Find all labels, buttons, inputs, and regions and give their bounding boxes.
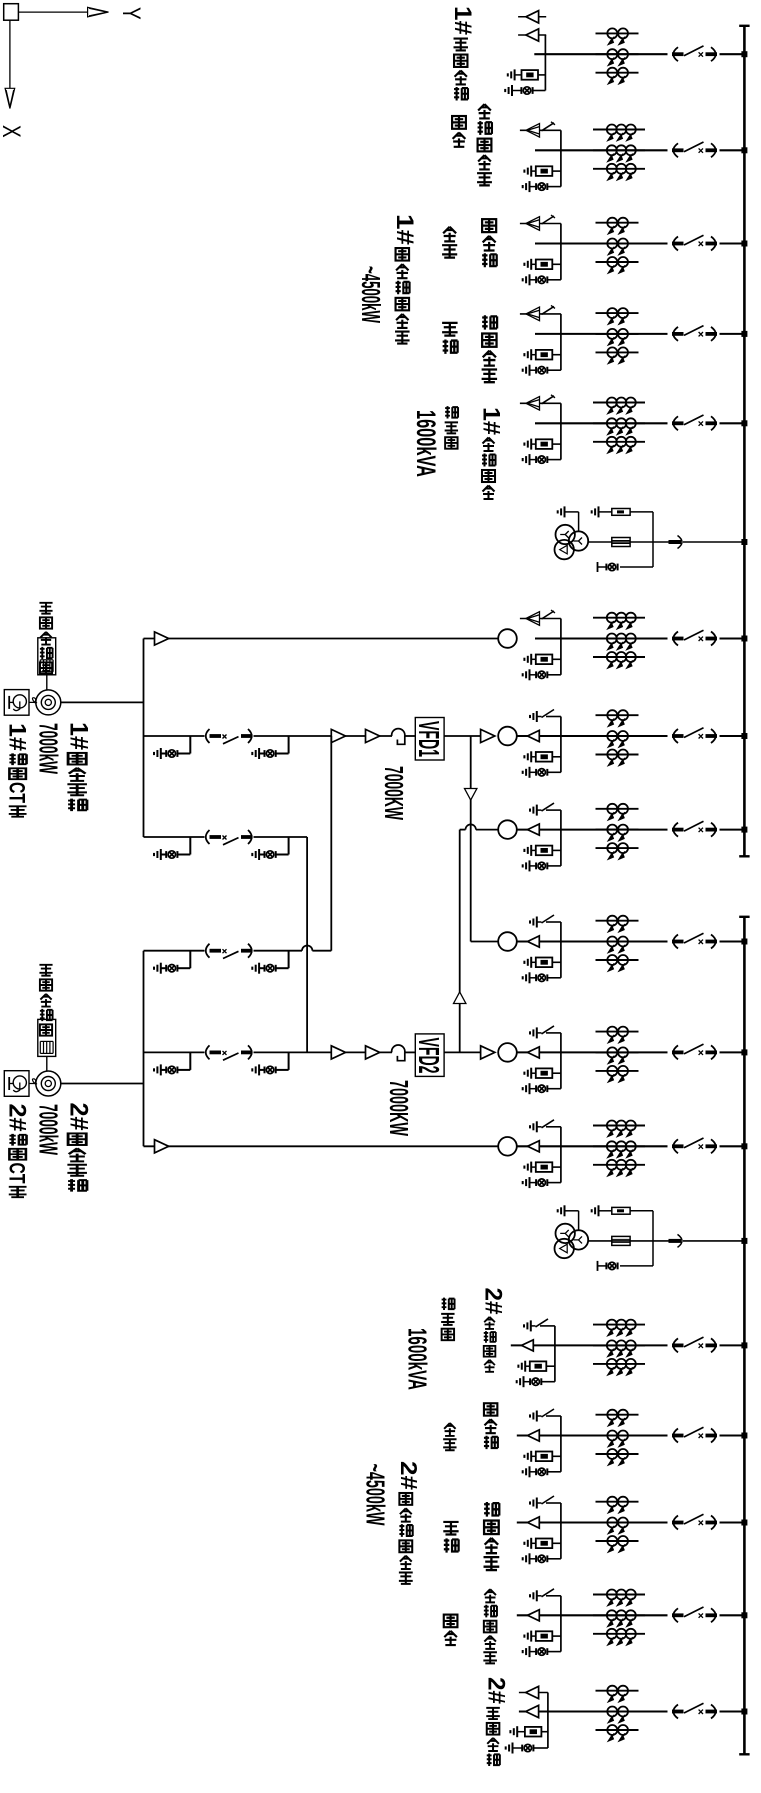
svg-text:~4500kW: ~4500kW — [356, 266, 385, 323]
bus junction — [741, 539, 747, 545]
ground — [524, 957, 531, 968]
svg-text:X: X — [0, 125, 25, 138]
svg-text:1#: 1# — [391, 214, 417, 245]
bus PT cubicle 2 — [555, 1205, 748, 1271]
CT group — [596, 28, 639, 83]
main wire — [535, 149, 668, 151]
tie breaker row to VFD1 input — [144, 944, 332, 974]
wire to bus — [683, 541, 743, 543]
main wire — [535, 242, 668, 244]
withdrawable circuit breaker — [672, 142, 717, 157]
svg-text:2#: 2# — [480, 1288, 506, 1315]
brush squiggle — [29, 698, 37, 703]
charging lamp stub — [530, 186, 537, 188]
wire branch — [560, 314, 562, 370]
disconnect + surge arrester stub — [520, 402, 561, 404]
wire to bus — [720, 1344, 744, 1346]
ground-lamp stub — [252, 951, 288, 974]
ground — [523, 1553, 530, 1564]
wire — [405, 1051, 416, 1053]
label 1# desulf fan — [391, 214, 417, 245]
withdrawable circuit breaker — [672, 1337, 717, 1352]
PT fuse stub — [531, 849, 536, 851]
1# differential CT box — [4, 690, 29, 716]
earthing switch stub — [546, 1126, 561, 1128]
charging lamp stub — [530, 771, 537, 773]
CT group — [593, 613, 645, 668]
ground — [508, 69, 515, 80]
ground — [523, 181, 530, 192]
disconnect + surge arrester stub — [520, 223, 561, 225]
PT fuse stub — [531, 443, 536, 445]
main wire — [535, 333, 668, 335]
ground — [518, 1361, 525, 1372]
CT group — [596, 308, 639, 363]
wire branch — [554, 1326, 556, 1382]
ground — [524, 751, 531, 762]
PT fuse stub — [515, 74, 522, 76]
reactor — [392, 1045, 405, 1061]
wire — [405, 735, 416, 737]
earthing switch stub — [546, 921, 561, 923]
svg-text:2#: 2# — [395, 1461, 421, 1490]
earthing switch stub — [546, 1595, 561, 1597]
label 2# desulf transformer — [480, 1288, 506, 1315]
ground — [523, 1646, 530, 1657]
flow arrow — [331, 1046, 345, 1059]
wire to bus — [720, 1434, 744, 1436]
wire — [565, 511, 579, 513]
breaker — [206, 944, 253, 959]
CT group — [593, 1590, 645, 1645]
wire — [254, 950, 303, 952]
excitation hatch — [39, 660, 41, 672]
label feeder — [452, 116, 466, 129]
withdrawable circuit breaker — [672, 1514, 717, 1529]
svg-text:1600kVA: 1600kVA — [411, 410, 442, 477]
bus junction — [741, 636, 747, 642]
feeder bay standby transformer feeder 2 — [517, 1589, 748, 1657]
Y axis arrow — [18, 11, 87, 13]
incoming bay 1# bus incoming — [505, 11, 747, 96]
svg-text:1#: 1# — [4, 723, 30, 751]
breaker — [206, 830, 253, 845]
label standby transformer 2 — [484, 1589, 496, 1602]
metering circle — [498, 1043, 517, 1062]
wire branch — [544, 35, 546, 91]
withdrawable circuit breaker — [672, 1607, 717, 1622]
PT three-winding transformer — [556, 1224, 575, 1243]
svg-text:2#: 2# — [483, 1677, 509, 1704]
crossover hop — [302, 946, 312, 951]
wire branch — [560, 922, 562, 978]
ground-lamp stub — [154, 1052, 190, 1075]
flow arrow down — [465, 789, 477, 801]
wire from trunk — [144, 1145, 499, 1147]
label 1# diff CT box — [4, 723, 30, 751]
brush squiggle — [29, 1079, 37, 1084]
contact to bus — [669, 1239, 682, 1243]
PT fuse stub — [531, 170, 536, 172]
wire from trunk — [144, 735, 205, 737]
wire to bus — [720, 829, 744, 831]
label power transformer 2 — [442, 1298, 455, 1310]
label 2# main fan — [65, 1103, 92, 1131]
wire to bus — [720, 242, 744, 244]
ground-lamp stub — [154, 837, 190, 860]
bus 1 — [743, 26, 746, 857]
breaker — [206, 1045, 253, 1060]
wire from trunk — [144, 836, 205, 838]
wire branch — [560, 403, 562, 459]
label 1# bus incoming — [449, 6, 475, 35]
VFD1 bypass bay on bus 2 — [471, 915, 748, 983]
incoming cable arrow 1 — [518, 16, 546, 18]
svg-text:CT: CT — [4, 782, 29, 803]
motor wire to trunk — [61, 701, 144, 703]
PT fuse stub — [517, 1731, 525, 1733]
CT group — [593, 125, 645, 180]
wire to motor — [46, 675, 48, 690]
ground — [523, 767, 530, 778]
withdrawable circuit breaker — [672, 415, 717, 430]
withdrawable circuit breaker — [672, 1703, 717, 1718]
main wire — [517, 1434, 668, 1436]
CT group — [596, 804, 639, 859]
bus junction — [741, 147, 747, 153]
earthing switch stub — [546, 809, 561, 811]
open-delta lamp — [620, 1265, 653, 1267]
ground — [524, 654, 531, 665]
bus junction — [741, 1709, 747, 1715]
flow arrow — [481, 729, 495, 742]
charging lamp stub — [530, 279, 537, 281]
main wire — [517, 1051, 668, 1053]
wire branch — [560, 1033, 562, 1089]
bus 2 — [743, 917, 746, 1755]
wire to bus — [720, 1614, 744, 1616]
feeder bay soft starter feeder 2 — [517, 1496, 748, 1564]
VFD2 bypass bay on bus 1 — [460, 803, 748, 871]
VFD2 feeder bay — [144, 1026, 748, 1094]
label VFD feeder 2 — [484, 1403, 497, 1415]
main wire — [534, 53, 667, 55]
bus junction — [741, 420, 747, 426]
ground-lamp stub — [252, 1052, 288, 1075]
cable arrow — [528, 1047, 540, 1058]
wire to motor — [46, 1056, 48, 1071]
PT fuse stub — [531, 658, 536, 660]
bus PT cubicle 1 — [555, 506, 748, 572]
CT group — [596, 218, 639, 273]
VFD1 feeder bay — [144, 710, 748, 778]
wire to bus — [720, 735, 744, 737]
charging lamp stub — [530, 977, 537, 979]
svg-text:Y: Y — [117, 7, 145, 20]
main wire — [517, 1614, 668, 1616]
bus junction — [741, 241, 747, 247]
svg-text:7000kW: 7000kW — [34, 1104, 63, 1155]
main wire — [517, 829, 668, 831]
ground-lamp stub — [154, 736, 190, 759]
tie wire VFD1-output to bus2 bay — [470, 736, 472, 942]
charging lamp stub — [530, 1088, 537, 1090]
disconnect + surge arrester stub — [520, 313, 561, 315]
ground-lamp stub — [154, 951, 190, 974]
withdrawable circuit breaker — [672, 326, 717, 341]
svg-text:1600kVA: 1600kVA — [403, 1328, 432, 1390]
earthing switch stub — [546, 716, 561, 718]
cable arrow — [528, 730, 540, 741]
metering circle — [498, 1137, 517, 1156]
svg-text:2#: 2# — [4, 1104, 30, 1132]
PT fuse — [612, 538, 630, 547]
feeder bay 2# power transformer feeder — [511, 1319, 748, 1387]
wire to bus — [720, 1521, 744, 1523]
main wire — [517, 1521, 668, 1523]
wire — [254, 735, 393, 737]
ground — [524, 439, 531, 450]
ground — [523, 1177, 530, 1188]
ground — [523, 972, 530, 983]
wire to bus — [720, 149, 744, 151]
charging lamp stub — [530, 369, 537, 371]
bus junction — [741, 1342, 747, 1348]
bus junction — [741, 939, 747, 945]
metering circle — [498, 932, 517, 951]
svg-text:1#: 1# — [449, 6, 475, 35]
wire branch — [560, 619, 562, 675]
incoming bay 2# bus incoming — [506, 1686, 748, 1754]
metering circle — [498, 820, 517, 839]
wire branch — [547, 1693, 549, 1749]
excitation hatch — [39, 1041, 41, 1053]
ground — [523, 1466, 530, 1477]
ground-lamp stub — [252, 837, 288, 860]
bus junction — [741, 1049, 747, 1055]
wire from trunk — [144, 950, 205, 952]
motor wire to trunk — [61, 1083, 144, 1085]
label new excitation device 2 — [39, 965, 52, 976]
main wire — [519, 1710, 668, 1712]
1# fan trunk — [143, 639, 145, 838]
flow arrow — [481, 1046, 495, 1059]
CT group — [596, 1027, 639, 1082]
flow arrow — [155, 632, 169, 645]
wire branch — [560, 1596, 562, 1652]
ground — [558, 1205, 565, 1216]
label 1600kVA 2 — [403, 1328, 432, 1390]
label 2# desulf fan — [395, 1461, 421, 1490]
svg-text:CT: CT — [4, 1163, 29, 1184]
feeder bay soft starter feeder — [520, 305, 748, 375]
charging lamp stub — [530, 1182, 537, 1184]
ground — [524, 349, 531, 360]
ground — [523, 860, 530, 871]
1# main fan motor — [36, 690, 61, 715]
withdrawable circuit breaker — [672, 630, 717, 645]
PT fuse stub — [531, 961, 536, 963]
main wire — [535, 422, 668, 424]
label 7000KW VFD1 — [379, 766, 408, 821]
cable arrow — [528, 1610, 540, 1621]
tie breaker row to VFD2 input — [144, 830, 308, 860]
incoming cable arrow 2 — [518, 34, 546, 36]
wire to bus — [683, 1240, 743, 1242]
bus junction — [741, 1520, 747, 1526]
label 2# diff CT box — [4, 1104, 30, 1132]
wire branch — [560, 224, 562, 280]
CT group — [593, 1121, 645, 1176]
charging lamp stub — [530, 865, 537, 867]
label power transformer — [445, 406, 458, 418]
VFD2 box — [415, 1034, 444, 1077]
label 2# bus incoming — [483, 1677, 509, 1704]
open-delta lamp — [620, 566, 653, 568]
label VFD feeder — [482, 219, 496, 232]
X axis arrow — [9, 20, 11, 88]
ground — [517, 1376, 524, 1387]
label ~4500kW 2 — [361, 1464, 390, 1526]
flow arrow — [331, 729, 345, 742]
wire to bus — [720, 940, 744, 942]
main wire — [517, 940, 668, 942]
ground — [523, 274, 530, 285]
CT group — [596, 916, 639, 971]
ground — [524, 845, 531, 856]
svg-text:1#: 1# — [478, 407, 504, 435]
ground — [523, 1083, 530, 1094]
charging lamp stub — [530, 1558, 537, 1560]
ground — [505, 85, 512, 96]
Y label — [117, 7, 145, 20]
svg-text:2#: 2# — [65, 1103, 92, 1131]
ground — [524, 1451, 531, 1462]
svg-text:VFD1: VFD1 — [413, 721, 445, 757]
main wire — [588, 541, 670, 543]
PT three-winding transformer — [556, 525, 575, 544]
reactor — [392, 729, 405, 745]
wire branch — [560, 717, 562, 773]
wire — [254, 1051, 393, 1053]
wire to bus — [720, 53, 744, 55]
earthing switch stub — [546, 1032, 561, 1034]
earthing switch stub — [540, 1325, 555, 1327]
ground — [592, 1205, 599, 1216]
label soft starter feeder 2 — [484, 1502, 499, 1517]
charging lamp stub — [530, 674, 537, 676]
PT fuse stub — [531, 1166, 536, 1168]
wire from tie — [460, 829, 466, 831]
PT fuse stub — [531, 1542, 536, 1544]
CT group — [596, 1497, 639, 1552]
wire to bus — [720, 1145, 744, 1147]
X label — [0, 125, 25, 138]
wire — [254, 836, 308, 838]
cable arrow — [528, 1517, 540, 1528]
label 7000kW motor2 — [34, 1104, 63, 1155]
ground — [524, 1068, 531, 1079]
PT fuse stub — [531, 354, 536, 356]
flow arrow — [155, 1140, 169, 1153]
charging lamp stub — [513, 1747, 523, 1749]
withdrawable circuit breaker — [672, 1044, 717, 1059]
wire to bus — [720, 637, 744, 639]
bus junction — [741, 733, 747, 739]
tie wire bus1 bay to VFD2-output — [459, 830, 461, 1053]
label 7000kW motor1 — [34, 723, 63, 774]
metering circle — [498, 629, 517, 648]
label 7000KW VFD2 — [384, 1080, 413, 1137]
ground — [592, 506, 599, 517]
wire from trunk — [144, 638, 499, 640]
label 1# main fan — [65, 722, 92, 750]
VFD1 label — [413, 721, 445, 757]
label ~4500kW — [356, 266, 385, 323]
bus junction — [741, 1143, 747, 1149]
ground — [524, 166, 531, 177]
svg-text:7000KW: 7000KW — [384, 1080, 413, 1137]
PT fuse stub — [525, 1365, 530, 1367]
secondary fuse — [599, 1210, 612, 1212]
1# excitation device box — [38, 638, 56, 675]
wire — [444, 1051, 481, 1053]
withdrawable circuit breaker — [672, 46, 717, 61]
breaker — [206, 729, 253, 744]
ground — [523, 669, 530, 680]
cable arrow — [528, 1430, 540, 1441]
2# fan trunk — [143, 951, 145, 1147]
wire branch — [560, 1416, 562, 1472]
metering circle — [498, 727, 517, 746]
disconnect + surge arrester stub — [520, 129, 561, 131]
incoming cable arrow 2 — [526, 1705, 539, 1717]
bus junction — [741, 1612, 747, 1618]
ground — [523, 365, 530, 376]
tie wire VFD1-input to row 950 — [330, 736, 332, 951]
label new excitation device 1 — [39, 603, 52, 614]
contact to bus — [669, 540, 682, 544]
charging lamp stub — [530, 1471, 537, 1473]
wire — [630, 511, 653, 513]
withdrawable circuit breaker — [672, 1427, 717, 1442]
wire to bus — [720, 1710, 744, 1712]
flow arrow — [366, 1046, 380, 1059]
ground — [510, 1726, 517, 1737]
PT fuse stub — [531, 263, 536, 265]
feeder bay VFD feeder — [520, 215, 748, 285]
charging lamp stub — [530, 1651, 537, 1653]
main wire — [588, 1240, 670, 1242]
coordinate origin box — [4, 4, 19, 21]
withdrawable circuit breaker — [672, 821, 717, 836]
cable arrow — [528, 936, 540, 947]
flow arrow — [366, 729, 380, 742]
wire to bus — [720, 422, 744, 424]
CT group — [593, 1320, 645, 1375]
ground — [558, 506, 565, 517]
ground — [506, 1743, 513, 1754]
cable arrow — [528, 1141, 540, 1152]
cable arrow — [528, 824, 540, 835]
cable arrow — [522, 1340, 534, 1351]
secondary fuse — [599, 511, 612, 513]
svg-text:VFD2: VFD2 — [413, 1038, 445, 1074]
label standby transformer — [478, 104, 491, 118]
VFD1 box — [415, 718, 444, 761]
main wire — [535, 637, 668, 639]
wire branch — [560, 810, 562, 866]
